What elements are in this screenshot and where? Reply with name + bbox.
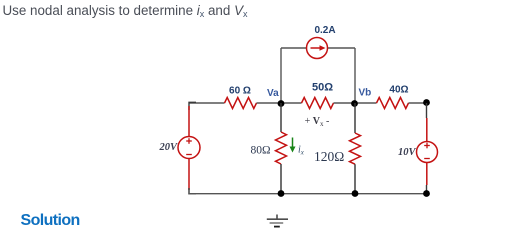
svg-text:Va: Va <box>267 88 279 99</box>
wire: red lead below 10V source <box>426 163 428 186</box>
wire: 40ohm to right node <box>409 102 427 104</box>
wire: red lead above 20V source <box>188 106 190 137</box>
wire: red lead below 20V source <box>188 159 190 191</box>
minus sign in 10V source <box>424 158 430 160</box>
svg-text:120Ω: 120Ω <box>314 149 344 164</box>
wire: 120ohm branch lower <box>354 164 356 193</box>
current source I1 0.2A circle <box>307 38 328 59</box>
minus sign in 20V source <box>186 154 192 156</box>
current arrow ix green <box>292 138 294 148</box>
resistor 120ohm zigzag vertical <box>350 133 361 164</box>
wire: left branch top corner <box>189 102 196 110</box>
wire: Va up to top rail <box>280 48 282 103</box>
wire: left branch bottom corner <box>189 188 196 194</box>
wire: 120ohm branch upper <box>354 103 356 133</box>
Solution heading <box>21 212 80 230</box>
resistor 60ohm zigzag <box>225 98 257 109</box>
svg-text:60 Ω: 60 Ω <box>229 86 251 97</box>
svg-text:+ Vx -: + Vx - <box>305 116 330 128</box>
svg-text:40Ω: 40Ω <box>389 85 408 96</box>
wire: 80ohm branch upper <box>280 103 282 132</box>
svg-text:50Ω: 50Ω <box>312 82 333 94</box>
current source arrow <box>311 47 322 49</box>
wire: right branch lower <box>426 185 428 193</box>
svg-text:0.2A: 0.2A <box>314 25 335 36</box>
voltage source V1 20V circle <box>178 137 200 159</box>
node bottom 120ohm dot <box>352 190 359 197</box>
wire: Vb up to top rail <box>354 48 356 103</box>
svg-text:ix: ix <box>298 145 305 157</box>
wire: left top rail from 20V source to 60ohm <box>189 102 225 104</box>
resistor 40ohm zigzag <box>377 98 409 109</box>
svg-text:20V: 20V <box>158 142 178 153</box>
wire: 50ohm to 40ohm through node Vb <box>334 102 377 104</box>
node bottom-right dot <box>423 190 430 197</box>
resistor 50ohm zigzag <box>302 98 334 109</box>
svg-text:80Ω: 80Ω <box>250 145 270 157</box>
node Vb dot <box>351 100 358 107</box>
voltage source V2 10V circle <box>417 142 438 163</box>
svg-text:Vb: Vb <box>359 88 372 99</box>
wire: 80ohm branch lower <box>280 164 282 193</box>
wire: 60ohm to 50ohm through node Va <box>257 102 302 104</box>
wire: bottom rail <box>188 193 426 195</box>
node bottom 80ohm dot <box>278 190 285 197</box>
resistor 80ohm zigzag vertical <box>276 132 287 164</box>
plus sign in 20V source <box>186 140 192 142</box>
plus sign in 10V source <box>424 145 430 147</box>
svg-text:10V: 10V <box>398 147 417 158</box>
title text <box>3 3 248 18</box>
ground symbol <box>276 215 278 220</box>
wire: right branch upper <box>426 103 428 118</box>
wire: top rail right of current source <box>328 47 356 49</box>
wire: top rail left of current source <box>281 47 307 49</box>
node top-right dot <box>423 99 430 106</box>
wire: red lead above 10V source <box>426 118 428 142</box>
node Va dot <box>278 100 285 107</box>
